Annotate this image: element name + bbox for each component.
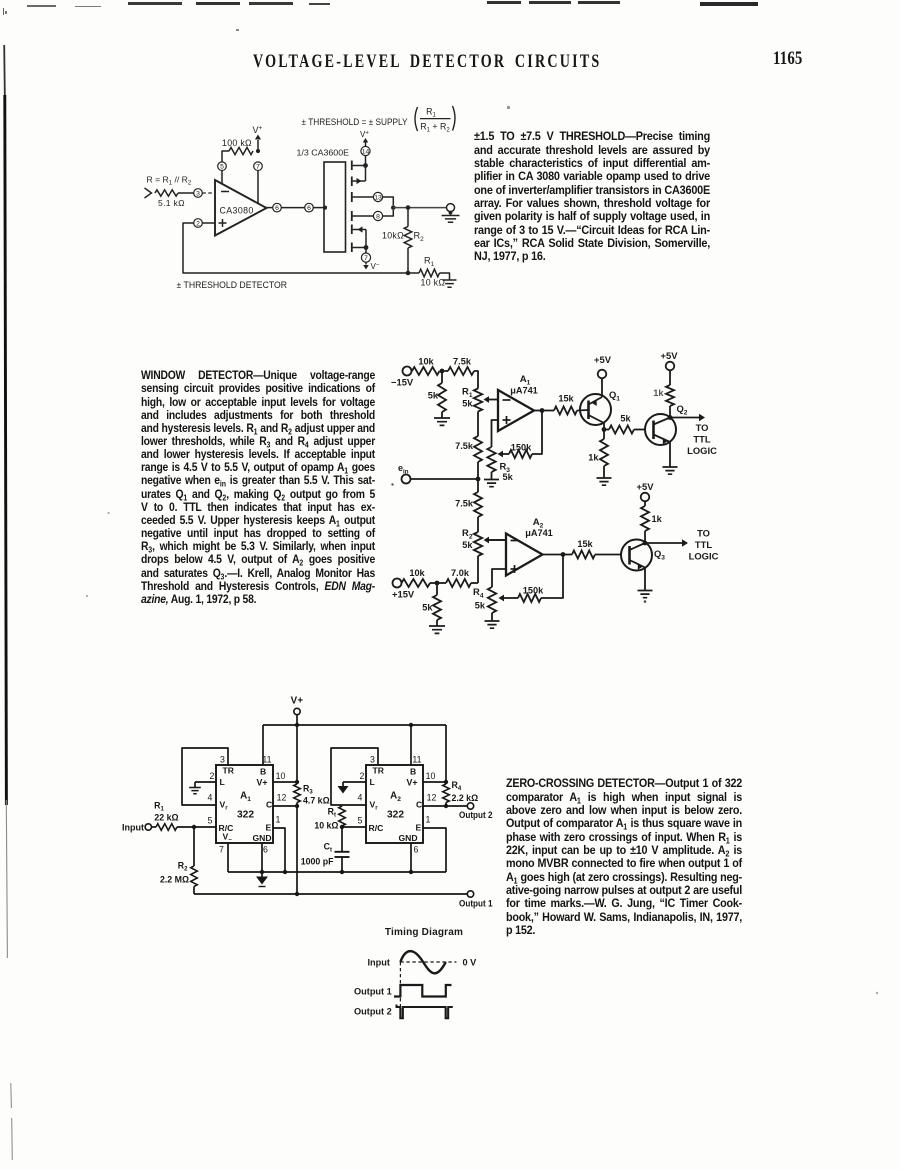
svg-text:LOGIC: LOGIC	[689, 551, 719, 562]
svg-text:C: C	[416, 800, 422, 810]
V+ supply terminal	[291, 696, 304, 715]
svg-text:7.5k: 7.5k	[455, 499, 474, 509]
potentiometer R3 5k with ground	[484, 447, 514, 487]
A1 pin3-pin4 loop wire	[182, 748, 228, 805]
A1 pin12 wire	[273, 804, 299, 808]
Output 1 terminal	[459, 891, 493, 909]
svg-text:4: 4	[358, 793, 363, 803]
svg-text:+5V: +5V	[661, 350, 679, 361]
svg-text:Ct: Ct	[324, 842, 332, 854]
svg-text:± THRESHOLD = ± SUPPLY: ± THRESHOLD = ± SUPPLY	[302, 117, 408, 127]
terminal +5V (Q2)	[661, 350, 679, 370]
svg-text:V−: V−	[371, 262, 380, 271]
resistor 7.5k (mid lower)	[455, 492, 482, 532]
svg-text:μA741: μA741	[525, 528, 553, 538]
junction node V+ / 100k / pin7	[256, 149, 260, 153]
svg-text:TO: TO	[697, 528, 710, 539]
svg-text:+15V: +15V	[392, 589, 415, 600]
svg-text:11: 11	[412, 755, 421, 765]
svg-text:1k: 1k	[588, 453, 599, 463]
svg-text:4.7 kΩ: 4.7 kΩ	[303, 796, 330, 806]
svg-text:13: 13	[374, 194, 382, 201]
svg-text:12: 12	[427, 793, 437, 803]
output wire with pin 6 circles	[267, 203, 328, 212]
wire to R4 top	[445, 725, 447, 784]
svg-text:Rt: Rt	[328, 807, 336, 819]
A1 pin10 wire	[273, 781, 297, 783]
svg-text:5: 5	[220, 164, 224, 171]
svg-text:7.5k: 7.5k	[453, 357, 472, 367]
svg-text:Output 2: Output 2	[459, 810, 493, 820]
svg-text:Q3: Q3	[654, 548, 665, 562]
pin 14 circle	[361, 146, 370, 155]
svg-text:7.0k: 7.0k	[451, 568, 470, 578]
node 10k/5k/7.5k	[440, 369, 445, 374]
svg-text:Vr: Vr	[370, 800, 379, 812]
svg-text:1k: 1k	[653, 388, 664, 398]
transistor N1 lead to pin 13	[352, 192, 374, 202]
resistor 1k (Q3 collector)	[641, 502, 663, 544]
resistor 5k to ground (lower divider)	[422, 583, 441, 626]
svg-text:C: C	[266, 800, 272, 810]
text paragraph: zero-crossing detector description	[506, 777, 742, 937]
svg-text:R4: R4	[473, 586, 484, 600]
svg-text:E: E	[416, 823, 422, 833]
capacitor Ct 1000 pF	[301, 827, 350, 872]
svg-text:V+: V+	[291, 696, 304, 707]
ground (Q3 emitter)	[638, 591, 653, 603]
feedback wire and resistor 150k (A1)	[498, 411, 543, 459]
text paragraph: window detector description	[141, 369, 375, 606]
svg-text:10: 10	[426, 771, 436, 781]
op-amp A1 uA741	[498, 374, 538, 431]
svg-text:L: L	[220, 777, 225, 787]
ground (Q2 emitter)	[663, 467, 678, 474]
A2 pin10 wire	[423, 780, 448, 784]
svg-text:B: B	[260, 767, 266, 777]
A2 inverting input wire	[487, 539, 506, 541]
resistor R1 22 kOhm	[152, 801, 179, 831]
formula label: threshold = supply * R1/(R1+R2)	[302, 106, 456, 134]
svg-text:3: 3	[220, 755, 225, 765]
svg-text:R1: R1	[426, 107, 436, 119]
svg-text:ein: ein	[398, 463, 409, 476]
svg-text:11: 11	[262, 755, 271, 765]
svg-text:10: 10	[276, 771, 286, 781]
svg-text:LOGIC: LOGIC	[687, 445, 717, 456]
svg-text:+5V: +5V	[594, 354, 612, 365]
ground (lower 5k)	[429, 626, 445, 633]
svg-text:2.2 kΩ: 2.2 kΩ	[452, 793, 479, 803]
node R2/R1 bottom rail junction	[406, 271, 411, 276]
potentiometer R1 5k	[462, 386, 482, 412]
svg-text:R3: R3	[303, 784, 313, 796]
svg-text:Output 2: Output 2	[354, 1007, 392, 1017]
svg-text:7: 7	[256, 164, 260, 171]
svg-text:15k: 15k	[577, 539, 593, 549]
svg-text:1/3 CA3600E: 1/3 CA3600E	[297, 148, 350, 158]
wire to A2 pin 11	[410, 725, 412, 765]
page header title	[253, 51, 571, 73]
text paragraph: threshold detector description	[474, 130, 710, 263]
svg-text:Timing Diagram: Timing Diagram	[385, 927, 463, 938]
svg-text:7: 7	[219, 845, 224, 855]
svg-text:B: B	[410, 767, 416, 777]
resistor 7.0k	[437, 568, 478, 587]
A2 pin1 wire to rail	[423, 828, 446, 872]
svg-text:Output 1: Output 1	[354, 987, 392, 997]
svg-text:4: 4	[208, 793, 213, 803]
svg-text:R2: R2	[462, 527, 473, 541]
svg-text:CA3080: CA3080	[220, 206, 254, 216]
resistor 1k (Q2 collector)	[653, 371, 674, 418]
terminal +5V (Q3)	[637, 481, 655, 501]
svg-text:R4: R4	[452, 780, 462, 792]
ground (upper 5k)	[434, 418, 450, 425]
A2 pin numbers	[358, 755, 437, 855]
label TO TTL LOGIC (lower)	[689, 528, 719, 562]
svg-text:R = R1 // R2: R = R1 // R2	[147, 175, 192, 187]
pin 8 circle	[373, 210, 393, 221]
svg-text:1k: 1k	[652, 514, 663, 524]
svg-text:TTL: TTL	[693, 434, 710, 445]
svg-text:Q2: Q2	[677, 403, 688, 417]
svg-text:2: 2	[210, 771, 215, 781]
transistor Q2 (NPN)	[645, 403, 688, 467]
svg-text:TR: TR	[373, 766, 385, 776]
wiper arrow to A2 inverting input	[484, 537, 507, 544]
svg-text:322: 322	[387, 810, 404, 821]
A2 + input wire to R4	[492, 569, 506, 587]
svg-text:V+: V+	[407, 778, 418, 788]
svg-text:5k: 5k	[475, 601, 486, 611]
pin 13 circle	[373, 192, 393, 205]
svg-text:GND: GND	[399, 833, 418, 843]
svg-text:5k: 5k	[620, 414, 631, 424]
svg-text:10 kΩ: 10 kΩ	[421, 278, 446, 288]
resistor 5.1 kOhm input	[155, 190, 194, 208]
svg-text:R1: R1	[154, 801, 164, 813]
pin 2 circle (non-inverting input)	[194, 219, 215, 228]
wire R1 to 7.5k mid	[477, 412, 479, 437]
svg-text:R2: R2	[178, 861, 188, 873]
top distribution wire	[263, 723, 446, 727]
resistor R2 2.2 MOhm	[160, 827, 197, 894]
svg-text:10k: 10k	[409, 568, 425, 578]
label TO TTL LOGIC (upper)	[687, 422, 717, 456]
V+ rail vertical	[295, 715, 299, 785]
svg-text:2: 2	[196, 220, 200, 227]
svg-text:1: 1	[276, 815, 281, 825]
svg-text:μA741: μA741	[510, 386, 538, 396]
pin 3 circle (inverting input)	[194, 189, 215, 198]
resistor R2 10 kOhm	[382, 208, 424, 273]
Output 2 terminal	[459, 803, 493, 820]
svg-text:R1 + R2: R1 + R2	[420, 122, 450, 134]
svg-text:6: 6	[414, 845, 419, 855]
svg-text:2: 2	[360, 771, 365, 781]
output 1 square waveform	[394, 985, 452, 997]
svg-text:5: 5	[208, 816, 213, 826]
rail continuation to output 1	[295, 803, 299, 897]
svg-text:3: 3	[196, 190, 200, 197]
A1 pin numbers	[208, 755, 287, 855]
node Q1 emitter junction	[602, 427, 607, 432]
pin 7 circle (V- of CA3600E)	[361, 253, 370, 262]
svg-text:1000 pF: 1000 pF	[301, 857, 334, 867]
A1 pin6 wire with arrow ground	[256, 843, 268, 887]
resistor R1 10 kOhm with ground	[408, 256, 457, 288]
IC block 1/3 CA3600E outline	[297, 148, 350, 253]
scan artifact: faint specks	[86, 512, 878, 994]
svg-text:5k: 5k	[462, 540, 473, 550]
Output 1 wire	[194, 893, 467, 895]
svg-text:100 kΩ: 100 kΩ	[222, 138, 252, 148]
V+ arrow at pin 14	[360, 130, 369, 147]
svg-text:10kΩ: 10kΩ	[382, 231, 404, 241]
terminal +15V	[392, 579, 415, 600]
svg-text:E: E	[266, 823, 272, 833]
svg-text:A2: A2	[390, 791, 401, 804]
svg-text:8: 8	[376, 213, 380, 220]
svg-text:322: 322	[237, 810, 254, 821]
output node junction	[391, 205, 447, 210]
svg-text:Input: Input	[122, 823, 144, 833]
svg-text:R1: R1	[462, 386, 473, 400]
svg-text:5.1 kΩ: 5.1 kΩ	[158, 198, 185, 208]
svg-text:5k: 5k	[428, 391, 439, 401]
resistor R4 2.2 kOhm	[443, 780, 478, 806]
pin 7 circle on V+ rail	[254, 162, 263, 204]
transistor Q3 (NPN)	[621, 540, 665, 591]
resistor 100 kOhm (opamp bias)	[222, 138, 253, 162]
node 10k/5k/7.0k lower	[435, 581, 440, 586]
scan artifact: left margin vertical scratch line	[4, 45, 12, 1160]
A2 pin12 wire to Output 2	[423, 804, 467, 808]
svg-text:150k: 150k	[511, 443, 532, 453]
bottom ground rail	[228, 870, 446, 874]
A1 pin1 wire to rail	[273, 828, 285, 872]
svg-text:7: 7	[364, 255, 368, 262]
output 2 pulse waveform	[397, 1005, 453, 1019]
svg-text:5k: 5k	[503, 472, 514, 482]
potentiometer R2 5k	[462, 527, 482, 583]
transistor Q1 (PNP)	[580, 379, 620, 430]
A1 pin5 wire node	[177, 825, 216, 829]
resistor 10k lower	[402, 568, 438, 587]
terminal -15V	[391, 367, 414, 388]
svg-text:12: 12	[277, 793, 287, 803]
potentiometer R4 5k with ground	[473, 586, 499, 628]
op-amp CA3080 triangle U1	[215, 180, 267, 236]
input terminal e_in	[391, 463, 480, 486]
svg-text:TR: TR	[223, 766, 235, 776]
svg-text:5k: 5k	[422, 603, 433, 613]
page number 1165	[773, 48, 802, 70]
dashed zero reference lines	[400, 962, 456, 1018]
terminal +5V (Q1)	[594, 354, 612, 378]
resistor R3 4.7 kOhm	[294, 784, 330, 806]
Q2 output arrow to TTL	[668, 414, 705, 421]
transistor P1 (PMOS top of CA3600E)	[352, 156, 368, 186]
wiper arrow to A1 inverting input	[484, 396, 499, 403]
svg-text:TO: TO	[696, 422, 709, 433]
svg-text:Input: Input	[368, 958, 390, 968]
svg-text:GND: GND	[253, 833, 272, 843]
transistor N2 lead to pin 8	[352, 211, 374, 221]
resistor 5k (Q1 to Q2)	[604, 414, 646, 434]
svg-text:R1: R1	[424, 256, 435, 269]
resistor 15k (A2 out to Q3)	[563, 539, 622, 559]
svg-text:22 kΩ: 22 kΩ	[154, 813, 178, 823]
A2 pin2 wire with arrow ground	[338, 782, 367, 794]
op-amp A2 uA741	[506, 517, 553, 576]
svg-text:A1: A1	[240, 791, 251, 804]
wire to A1 pin 11	[262, 725, 264, 765]
svg-text:2.2 MΩ: 2.2 MΩ	[160, 875, 189, 885]
svg-text:V+: V+	[257, 778, 268, 788]
svg-text:V−: V−	[223, 832, 233, 844]
feedback wire and resistor 150k (A2)	[499, 555, 564, 603]
resistor 7.5k upper	[444, 357, 478, 389]
svg-text:10k: 10k	[418, 357, 434, 367]
A2 pin3-pin4 loop wire	[331, 748, 378, 805]
Q3 output arrow to TTL	[643, 539, 688, 546]
A1 output node	[534, 408, 544, 413]
svg-text:6: 6	[263, 845, 268, 855]
svg-text:0 V: 0 V	[463, 958, 478, 968]
svg-text:3: 3	[370, 755, 375, 765]
svg-text:150k: 150k	[523, 586, 544, 596]
svg-text:R/C: R/C	[369, 823, 384, 833]
svg-text:V+: V+	[253, 125, 263, 135]
svg-text:+5V: +5V	[637, 481, 655, 492]
A1 + input wire to R3	[492, 420, 499, 447]
A2 pin6 wire	[410, 843, 412, 872]
svg-text:−15V: −15V	[391, 377, 414, 388]
svg-text:Vr: Vr	[220, 800, 229, 812]
svg-text:± THRESHOLD DETECTOR: ± THRESHOLD DETECTOR	[177, 280, 288, 290]
svg-text:10 kΩ: 10 kΩ	[314, 821, 338, 831]
svg-text:R2: R2	[414, 231, 425, 244]
A1 pin2 wire with ground	[189, 782, 216, 794]
IC A2 322 timer box	[366, 765, 423, 843]
svg-text:V+: V+	[360, 130, 369, 139]
scan artifact: small specks	[236, 29, 239, 31]
A2 pin5 wire node	[340, 825, 366, 829]
svg-text:14: 14	[362, 148, 370, 155]
V+ supply arrow (op-amp rail)	[253, 125, 263, 151]
svg-text:Q1: Q1	[609, 389, 620, 403]
resistor 5k to ground (upper divider)	[428, 371, 446, 418]
V- supply arrow	[363, 262, 380, 271]
resistor 10k upper	[412, 357, 440, 376]
scan artifact: top edge dashes	[27, 5, 56, 7]
A1 pin7 wire	[227, 843, 229, 872]
output terminal with ground	[442, 204, 460, 223]
transistor N3 (NMOS bottom of CA3600E)	[352, 225, 369, 254]
scan artifact: left margin line	[3, 8, 4, 15]
svg-text:5k: 5k	[462, 399, 473, 409]
pin 5 (bias) circle	[218, 162, 227, 185]
svg-text:TTL: TTL	[695, 539, 712, 550]
Input terminal	[122, 823, 152, 833]
feedback wire pin2 to bottom rail	[183, 223, 408, 273]
svg-text:1: 1	[426, 815, 431, 825]
svg-text:Output 1: Output 1	[459, 899, 493, 909]
IC A1 322 timer box	[216, 765, 273, 844]
resistor 7.5k (mid upper)	[455, 436, 482, 492]
A2 output node	[543, 552, 566, 557]
input lead chevron	[145, 188, 152, 198]
svg-text:L: L	[370, 777, 375, 787]
resistor 15k (A1 out to Q1)	[542, 394, 588, 415]
input sine waveform	[400, 951, 445, 973]
svg-text:6: 6	[307, 205, 311, 212]
resistor Rt 10 kOhm (timing)	[314, 805, 345, 831]
svg-text:6: 6	[275, 205, 279, 212]
resistor 1k (Q1) with ground	[588, 430, 611, 486]
svg-text:5: 5	[358, 816, 363, 826]
svg-text:7.5k: 7.5k	[455, 441, 474, 451]
svg-text:15k: 15k	[558, 394, 574, 404]
